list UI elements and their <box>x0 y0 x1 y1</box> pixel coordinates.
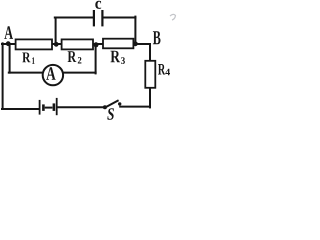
resistor R3 <box>103 39 133 49</box>
label R4 letter <box>158 64 165 75</box>
wire main row from node A to node B <box>2 43 150 45</box>
label R4 subscript <box>165 69 170 76</box>
scan noise smudge top right <box>170 14 176 20</box>
capacitor label c <box>95 1 101 9</box>
label R3 letter <box>111 51 121 63</box>
wire switch contact to bottom right corner <box>120 106 150 108</box>
resistor R1 <box>16 39 52 49</box>
wire capacitor branch top right <box>104 17 136 19</box>
junction dot between R1 and R2 <box>54 42 59 47</box>
wire ammeter branch left horizontal <box>9 72 44 74</box>
wire between battery cells <box>46 107 52 109</box>
battery cell 2 long plate <box>56 98 58 115</box>
switch S contact dot <box>118 102 121 105</box>
wire bottom right corner up to R4 <box>149 88 151 108</box>
label R3 subscript <box>121 57 125 64</box>
battery cell 1 long plate <box>39 100 41 115</box>
label R1 letter <box>22 53 30 63</box>
switch label S <box>107 108 114 120</box>
wire battery to switch pivot <box>58 106 105 108</box>
ammeter U1 circle <box>43 65 63 85</box>
label R2 letter <box>68 51 77 62</box>
capacitor C right plate <box>101 10 103 26</box>
wire bottom left to battery <box>2 108 39 110</box>
wire capacitor branch top left <box>55 17 93 19</box>
wire left vertical from node A down <box>2 43 4 109</box>
switch S blade <box>105 100 119 108</box>
node A junction dot <box>6 41 11 46</box>
battery cell 2 short plate <box>53 103 56 111</box>
label R1 subscript <box>32 57 35 64</box>
switch S pivot dot <box>103 105 107 109</box>
resistor R2 <box>62 39 93 49</box>
junction dot between R2 and R3 <box>94 42 99 47</box>
battery cell 1 short plate <box>42 104 45 111</box>
resistor R4 <box>145 61 155 88</box>
wire ammeter branch right vertical <box>95 45 97 74</box>
label R2 subscript <box>78 57 82 64</box>
wire capacitor branch left vertical <box>55 18 57 45</box>
capacitor C left plate <box>93 10 95 26</box>
wire capacitor branch right vertical <box>134 17 136 44</box>
node label B <box>153 31 161 44</box>
wire ammeter branch right horizontal <box>63 72 96 74</box>
ammeter letter A <box>46 67 55 80</box>
junction dot at node B capacitor branch <box>133 41 138 46</box>
wire node B down to R4 <box>149 44 151 62</box>
wire ammeter branch left vertical <box>9 44 11 73</box>
node label A <box>4 26 13 39</box>
